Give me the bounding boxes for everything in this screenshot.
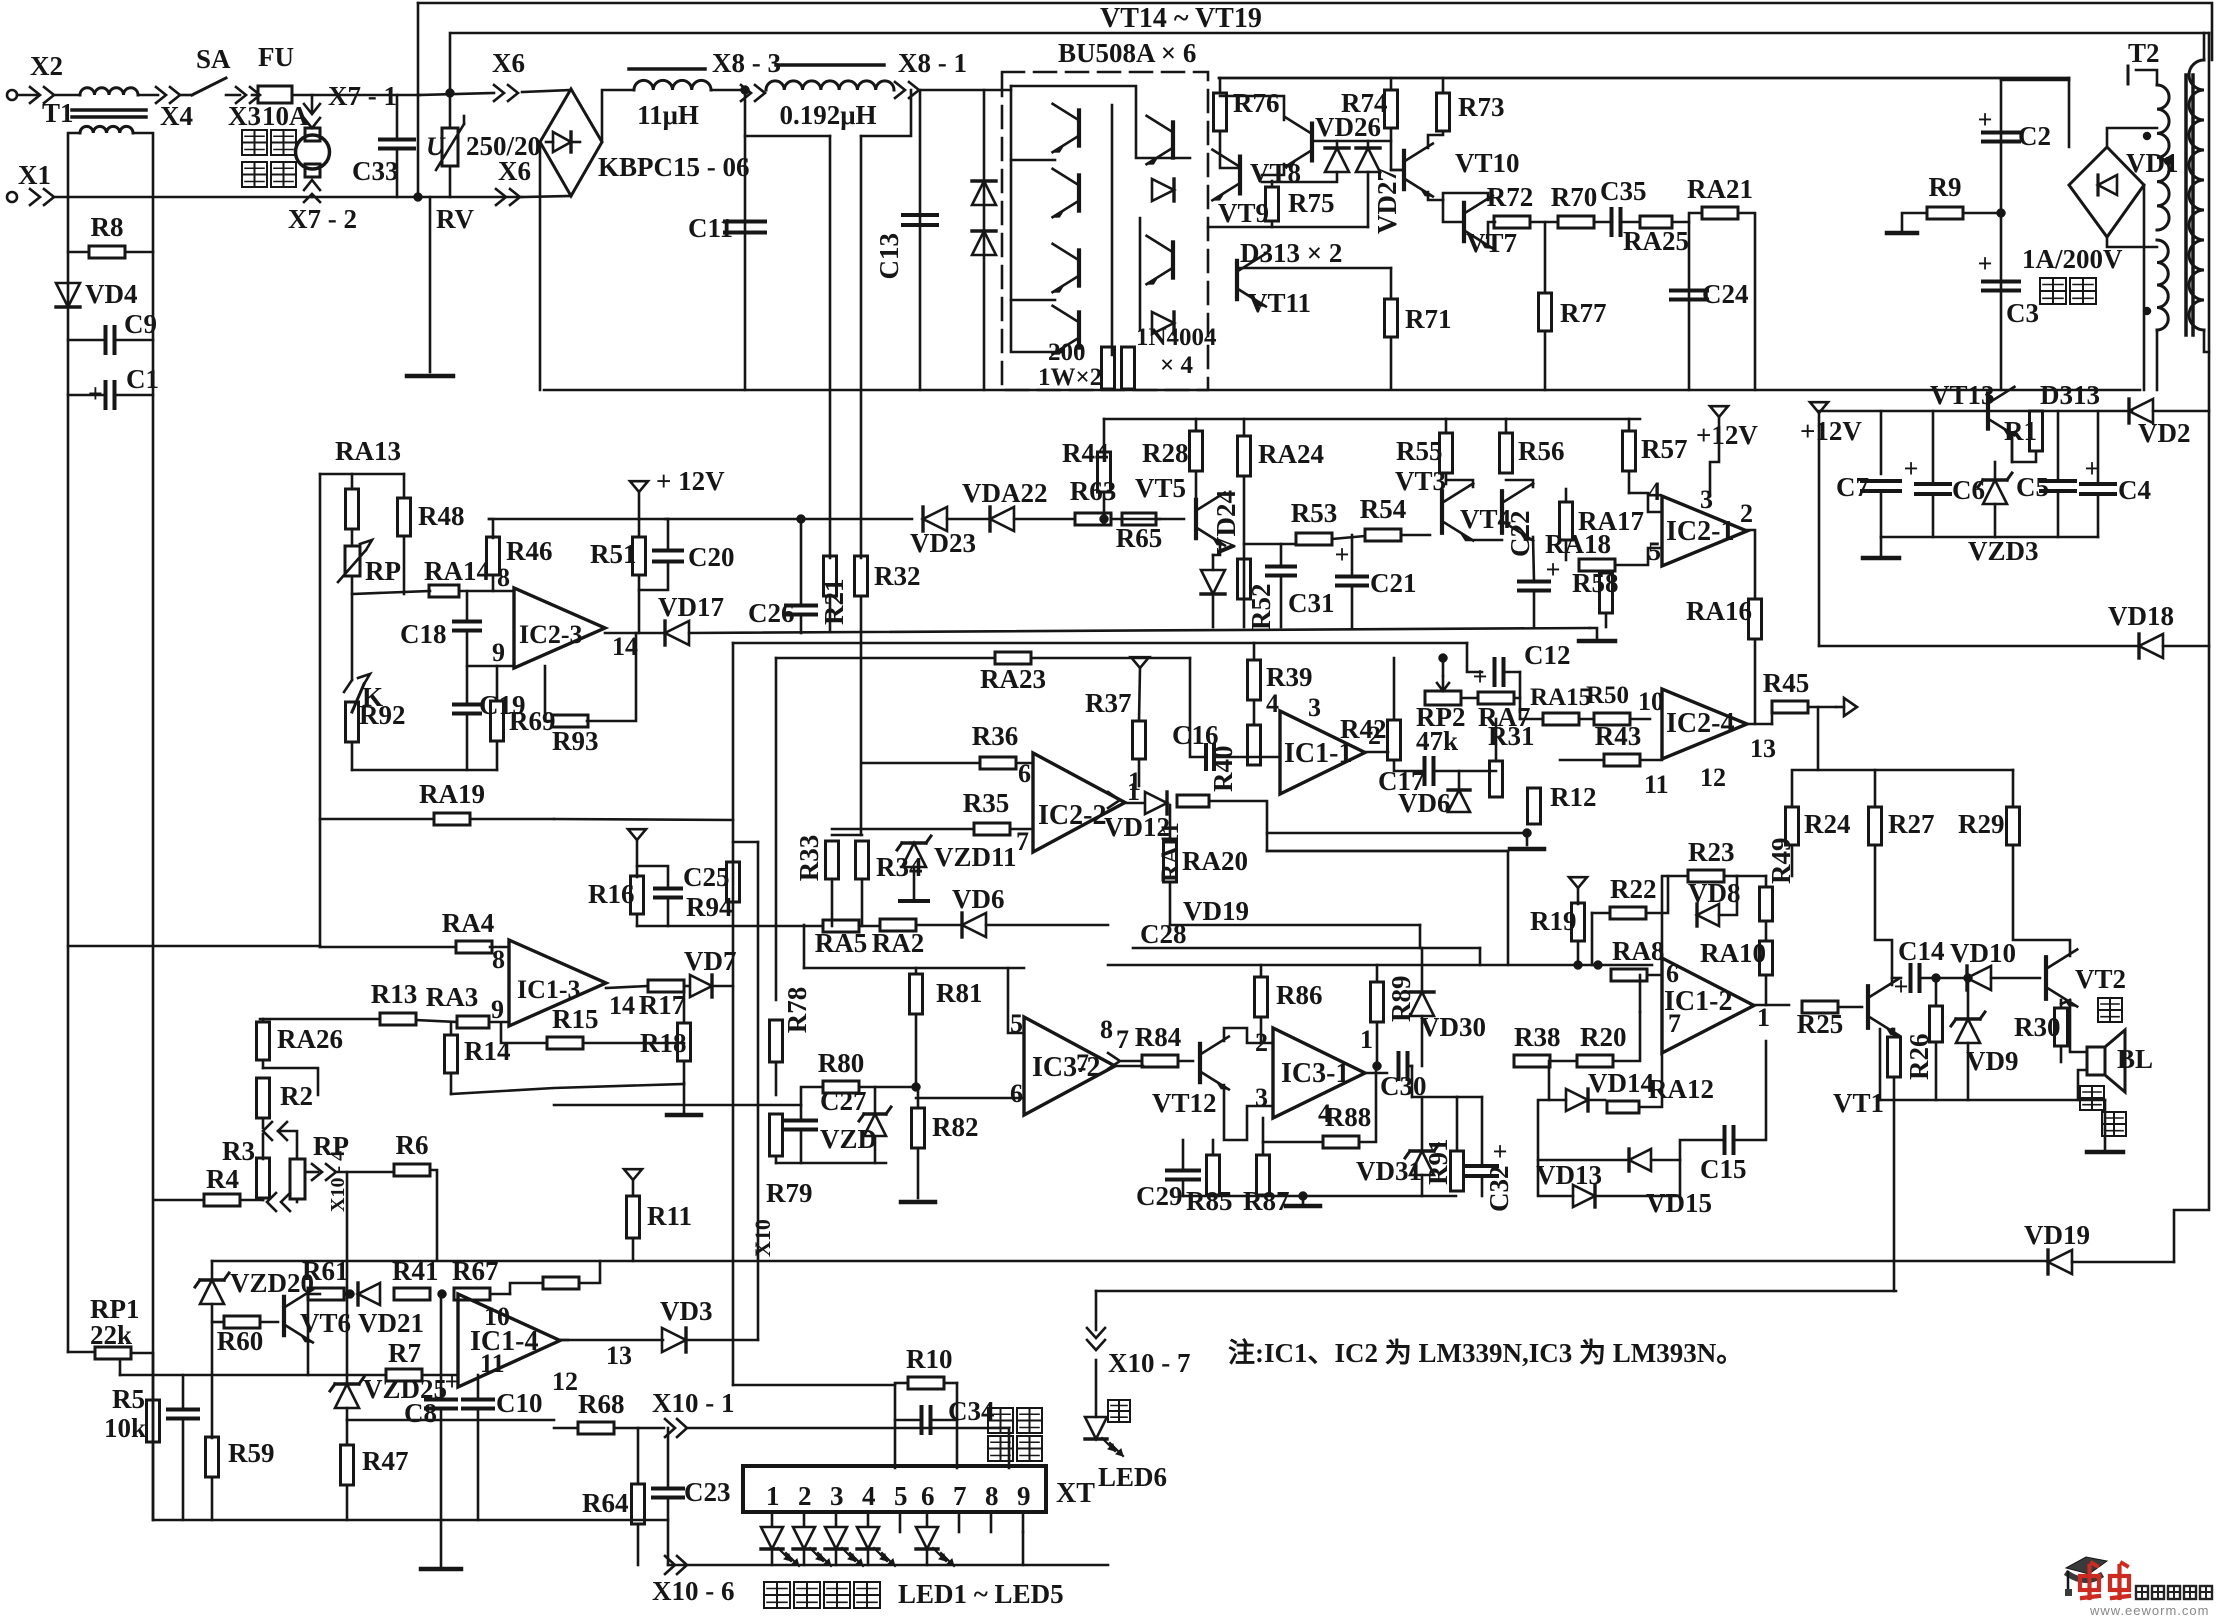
svg-text:R16: R16 [588, 879, 635, 909]
resistor R75 [1266, 187, 1335, 221]
svg-text:+: + [1335, 540, 1350, 569]
wire r44 down [1103, 492, 1106, 519]
svg-text:U: U [426, 132, 446, 161]
svg-text:LED6: LED6 [1098, 1462, 1167, 1492]
wire r54-vt3 [1401, 534, 1430, 537]
wire r81 up [915, 968, 918, 974]
resistor R53 [1291, 498, 1338, 545]
svg-text:R75: R75 [1288, 188, 1335, 218]
resistor R10 [906, 1344, 953, 1389]
capacitor C22 [1519, 555, 1560, 591]
diode VD13 [1536, 1160, 1602, 1207]
resistor R21 [819, 556, 849, 625]
wire vt5 col [1195, 471, 1198, 497]
svg-text:IC3-1: IC3-1 [1281, 1058, 1349, 1089]
wire vt10 base wire [1391, 169, 1404, 172]
resistor R61 [302, 1256, 349, 1300]
wire r26 down [1893, 1077, 1896, 1100]
svg-text:5: 5 [894, 1481, 908, 1511]
power symbol +12V a [630, 466, 725, 496]
svg-text:C9: C9 [124, 309, 157, 339]
wire LED5 bot [926, 1550, 929, 1565]
svg-text:C8: C8 [404, 1398, 437, 1428]
resistor R44 [1062, 438, 1111, 492]
wire ic21 pin5 [1615, 548, 1662, 565]
wire r25 out [1838, 1006, 1862, 1009]
wire reg bottom bus [1881, 536, 2098, 539]
diode VD5a [972, 181, 996, 205]
diode VD17 [658, 592, 724, 645]
capacitor C21 [1335, 540, 1417, 598]
wire r64 down [637, 1524, 640, 1565]
capacitor C31 [1267, 567, 1335, 619]
svg-text:R8: R8 [91, 212, 124, 242]
svg-text:R60: R60 [217, 1326, 264, 1356]
svg-text:BL: BL [2117, 1044, 2153, 1074]
wire c27 down [800, 1130, 803, 1163]
svg-text:R47: R47 [362, 1446, 409, 1476]
svg-text:R94: R94 [686, 892, 733, 922]
wire vert x776 [775, 658, 778, 1000]
svg-text:+: + [1904, 454, 1919, 483]
wire C33 bottom [396, 149, 399, 197]
wire r16 drop [636, 840, 639, 877]
wire r10 stub l [894, 1385, 897, 1468]
wire vd14 right [1589, 1099, 1605, 1102]
svg-text:C2: C2 [2018, 121, 2051, 151]
capacitor C34 [922, 1396, 995, 1433]
wire r10 r [944, 1382, 957, 1385]
wire r27 col [1875, 845, 1892, 978]
capacitor cap R5 side [168, 1410, 198, 1419]
svg-text:RA18: RA18 [1545, 529, 1611, 559]
wire y926 rail [637, 925, 823, 928]
resistor RA13 res [346, 489, 359, 529]
svg-text:IC2-1: IC2-1 [1666, 516, 1734, 547]
wire node down [1519, 698, 1522, 719]
speaker BL [2087, 1030, 2125, 1092]
resistor RA8 [1611, 936, 1665, 981]
svg-text:R30: R30 [2014, 1012, 2061, 1042]
wire driver box left [1219, 78, 1222, 93]
svg-text:VZD: VZD [820, 1124, 877, 1154]
wire 12v drop [638, 492, 641, 519]
svg-text:R15: R15 [552, 1004, 599, 1034]
junction gnd ic31 [1299, 1192, 1308, 1201]
wire ra21 out [1738, 213, 1755, 390]
transistor VT9 [1212, 150, 1269, 228]
wire vd15 wire [1652, 1159, 1680, 1162]
power symbol out [1836, 698, 1857, 716]
svg-text:+: + [445, 1367, 460, 1396]
resistor R25 [1797, 1001, 1844, 1039]
wire rp1 in [68, 1351, 95, 1354]
wire c1 right [115, 394, 153, 397]
potentiometer RP1top [338, 540, 372, 582]
resistor R47 [341, 1445, 409, 1485]
wire r24 down [1791, 845, 1794, 876]
resistor R41 [392, 1256, 439, 1300]
svg-text:R58: R58 [1572, 568, 1619, 598]
svg-text:X10 - 1: X10 - 1 [652, 1388, 735, 1418]
svg-text:VD10: VD10 [1950, 938, 2016, 968]
wire rp down [351, 576, 354, 680]
wire c31 down [1280, 576, 1283, 627]
resistor RA25 [1623, 216, 1689, 256]
svg-text:RA23: RA23 [980, 664, 1046, 694]
wire node-ra15 [1520, 718, 1543, 721]
resistor R51 [590, 537, 646, 575]
resistor RA7 [1478, 692, 1531, 732]
resistor R13 [371, 979, 418, 1025]
transistor VT16 [1053, 244, 1079, 292]
wire bridge bot in [522, 196, 571, 197]
svg-text:C25: C25 [683, 862, 730, 892]
svg-text:13: 13 [606, 1341, 632, 1370]
svg-text:R20: R20 [1580, 1022, 1627, 1052]
svg-text:T2: T2 [2128, 38, 2160, 68]
resistor R8 [89, 212, 125, 258]
wire ic32 in5 [1008, 968, 1024, 1033]
svg-text:R59: R59 [228, 1438, 275, 1468]
wire y968 rail [804, 967, 1024, 970]
wire jog y136 [745, 135, 830, 138]
wire r36 in [862, 762, 980, 765]
wire ic22 out [1125, 802, 1144, 805]
resistor R17 [639, 980, 686, 1020]
svg-text:4: 4 [1648, 477, 1661, 506]
diode VD2 [2129, 399, 2191, 448]
inductor L1 11uH [634, 80, 711, 130]
capacitor C17 [1378, 758, 1434, 796]
wire vt2 em [2061, 1000, 2070, 1004]
wire r49 chain [1765, 876, 1768, 887]
wire r8 right [125, 251, 153, 254]
wire ra3 out [489, 1021, 509, 1024]
connector arrows X10-1 [665, 1419, 687, 1437]
wire ra15-r50 [1579, 718, 1594, 721]
resistor R82 [912, 1108, 979, 1148]
text text 指示 [988, 1436, 1042, 1461]
wire vda22-r63 [1014, 518, 1075, 521]
power symbol pwr R11 [624, 1169, 642, 1180]
wire vd1 left in [2068, 80, 2071, 147]
wire c29 up [1182, 1140, 1185, 1170]
svg-text:VT10: VT10 [1455, 148, 1520, 178]
svg-text:47k: 47k [1416, 726, 1458, 756]
wire LED3 stub [835, 1512, 838, 1526]
resistor R11 [627, 1196, 693, 1238]
wire r43 right [1640, 745, 1662, 760]
wire bus y419 [1104, 418, 1640, 421]
wire r61 vt6 link [307, 1294, 310, 1375]
resistor R65 [1116, 513, 1163, 553]
svg-text:R54: R54 [1360, 494, 1407, 524]
wire r27 up [1874, 770, 1877, 807]
resistor RA17 [1560, 502, 1645, 540]
wire c7 v [1880, 411, 1883, 474]
T2 dot a [2143, 132, 2151, 140]
wire r75 down [1271, 221, 1274, 227]
wire c30-y1097 [1411, 1066, 1414, 1097]
wire driver top bus [1219, 77, 2069, 80]
connector arrows r2 [263, 1122, 287, 1140]
wire reg gnd stub [1880, 537, 1883, 555]
svg-text:10k: 10k [104, 1413, 146, 1443]
wire x1894 long [1893, 1100, 1896, 1291]
wire ra11 out [1209, 801, 1267, 851]
wire r10 stub r [956, 1383, 959, 1468]
wire vzd11 down [913, 867, 916, 900]
capacitor C14 [1894, 936, 1945, 1001]
wire LED2 stub [803, 1512, 806, 1526]
resistor R63 [1070, 476, 1117, 525]
wire r91 up [1456, 1097, 1459, 1151]
svg-text:C4: C4 [2118, 475, 2151, 505]
connector arrow X2 [30, 87, 54, 103]
power symbol pwr R16 [628, 829, 646, 840]
resistor R39 [1248, 660, 1313, 700]
svg-text:R82: R82 [932, 1112, 979, 1142]
wire c5 d [2057, 491, 2060, 537]
capacitor C33 [352, 140, 414, 187]
wire XT stub 959 [958, 1512, 961, 1532]
wire r65 vt5 [1156, 518, 1184, 521]
svg-text:4: 4 [1266, 689, 1279, 718]
svg-text:R72: R72 [1487, 182, 1534, 212]
svg-text:T1: T1 [42, 98, 74, 128]
capacitor C15 [1700, 1127, 1747, 1184]
resistor R37 [1085, 688, 1146, 759]
diode LED3 [825, 1527, 847, 1549]
svg-text:R4: R4 [206, 1164, 239, 1194]
wire r42 up [1393, 658, 1396, 720]
wire rp bot wire [296, 1199, 299, 1202]
wire rp1 out [131, 1352, 153, 1355]
resistor R40 [1208, 725, 1261, 792]
svg-text:R1: R1 [2004, 416, 2037, 446]
wire RA13 loop [320, 473, 404, 476]
svg-text:C10: C10 [496, 1388, 543, 1418]
capacitor C11 [688, 213, 765, 243]
diode VD9 [1951, 1012, 2019, 1076]
wire ra20 up [1169, 805, 1172, 842]
resistor R9 [1927, 172, 1963, 219]
resistor R15 [547, 1004, 599, 1049]
svg-text:VD14: VD14 [1588, 1068, 1654, 1098]
wire rp wiper wire [352, 591, 430, 594]
resistor R35 [963, 788, 1010, 835]
wire x101 out [688, 1427, 1009, 1430]
diode VD inner1 [1152, 179, 1174, 201]
capacitor C13 [874, 215, 937, 280]
wire xt right down [1022, 1532, 1025, 1565]
svg-text:C11: C11 [688, 213, 733, 243]
wire vzd3 line [1994, 462, 1997, 480]
svg-text:X8 - 1: X8 - 1 [898, 48, 967, 78]
svg-text:9: 9 [1017, 1481, 1031, 1511]
svg-text:C33: C33 [352, 156, 399, 186]
LED6 arrows [1102, 1438, 1123, 1456]
op-amp IC2-1 [1662, 496, 1747, 566]
svg-text:KBPC15 - 06: KBPC15 - 06 [598, 152, 750, 182]
wire r80 right [859, 1086, 916, 1089]
wire C2C3 vertical [2000, 80, 2003, 390]
svg-text:1: 1 [1757, 1003, 1770, 1032]
text fan motor chinese 风扇 [242, 130, 296, 155]
transistor VT5 [1135, 473, 1225, 545]
wire vt13 em [2011, 433, 2014, 462]
wire t2 sec top [2203, 33, 2206, 60]
resistor RA15 [1530, 684, 1591, 725]
wire bl gnd [2104, 1130, 2107, 1152]
junction c14 node [1932, 974, 1941, 983]
wire to vd23 [801, 518, 912, 521]
wire ic24 out [1747, 723, 1772, 726]
svg-text:R37: R37 [1085, 688, 1132, 718]
svg-text:R70: R70 [1551, 182, 1598, 212]
connector arrows X8-1 [895, 82, 919, 98]
resistor R64 [582, 1484, 645, 1524]
wire r86 up [1260, 965, 1263, 977]
svg-text:VT5: VT5 [1135, 473, 1186, 503]
svg-text:RA14: RA14 [424, 556, 490, 586]
svg-text:LED1 ~ LED5: LED1 ~ LED5 [898, 1579, 1064, 1609]
wire ra8 out [1647, 974, 1662, 977]
wire vd31 down [1421, 1175, 1424, 1196]
resistor R70 [1551, 182, 1598, 228]
wire bottom rail x10-6 [668, 1564, 1108, 1567]
svg-text:7: 7 [953, 1481, 967, 1511]
wire bottom jog [776, 1162, 886, 1165]
inductor bar X8-3 a [629, 67, 705, 71]
wire vd30 up [1421, 948, 1424, 992]
wire r20 out [1613, 1012, 1640, 1061]
LED arrows 3 [842, 1548, 863, 1566]
svg-text:14: 14 [612, 632, 638, 661]
svg-text:10A: 10A [262, 101, 309, 131]
wire r32 lower [860, 596, 863, 835]
wire r70-c35 [1594, 221, 1611, 224]
wire drop x920 C13 [919, 90, 922, 390]
svg-text:C35: C35 [1600, 176, 1647, 206]
power symbol +12V c [1696, 406, 1758, 450]
wire r1 top [2035, 410, 2038, 413]
wire y833 rail [1267, 832, 1527, 835]
connector arrows X7-2 up [304, 180, 320, 202]
wire r17-vd7 [684, 985, 689, 988]
resistor RA3 [426, 982, 489, 1028]
wire vd19 corner [1419, 925, 1422, 948]
wire rmid up [1935, 978, 1938, 1006]
wire vd13 chain [1538, 1100, 1549, 1160]
wire ra7 out [1514, 672, 1520, 698]
capacitor C24 [1671, 279, 1749, 309]
wire c2 top [2001, 79, 2069, 82]
op-amp IC2-4 [1662, 689, 1747, 759]
wire vt4 col [1506, 480, 1533, 487]
resistor R43 [1595, 721, 1642, 766]
wire vd9 down [1967, 1043, 1970, 1100]
capacitor C4 [2081, 454, 2151, 505]
wire bridge down [539, 142, 542, 390]
wire ra14 out [459, 590, 514, 593]
wire 12vb down [1818, 413, 1821, 646]
wire vt8 base link [1262, 164, 1284, 175]
svg-text:RA2: RA2 [872, 928, 925, 958]
wire ra21 in [1672, 213, 1702, 222]
connector arrows X6 bot [496, 189, 520, 205]
ground gnd R9 [1887, 231, 1917, 236]
resistor R27 [1869, 807, 1935, 845]
wire r68 rail [554, 1427, 578, 1430]
svg-text:C24: C24 [1702, 279, 1749, 309]
resistor R72 [1487, 182, 1534, 228]
svg-text:C3: C3 [2006, 298, 2039, 328]
svg-text:R24: R24 [1804, 809, 1851, 839]
svg-text:FU: FU [258, 42, 294, 72]
svg-text:X1: X1 [18, 160, 51, 190]
diode VD26 [1325, 148, 1349, 172]
svg-text:R21: R21 [819, 579, 849, 626]
wire vd24 up [1212, 555, 1215, 570]
wire c16 wire [1215, 756, 1280, 759]
wire r31 up [1495, 719, 1498, 761]
svg-text:1A/200V: 1A/200V [2022, 244, 2123, 274]
wire ic32 in6 [916, 1097, 1024, 1100]
wire bot rail ic31 [1183, 1195, 1456, 1198]
resistor R14 [445, 1035, 511, 1073]
text text qiao dui 桥堆 [2040, 278, 2096, 304]
svg-text:X6: X6 [492, 48, 525, 78]
diode LED6 [1085, 1417, 1107, 1439]
wire bottom rail left [153, 1519, 668, 1522]
svg-text:8: 8 [497, 563, 510, 592]
svg-text:RA3: RA3 [426, 982, 479, 1012]
svg-text:R45: R45 [1763, 668, 1810, 698]
wire vd3 out [686, 1339, 758, 1342]
wire c22 down [1533, 591, 1536, 627]
wire r39-r40 [1253, 700, 1256, 725]
wire ra10 down [1765, 975, 1768, 1005]
wire r38 right [1550, 1060, 1577, 1063]
wire vd8 wire [1719, 876, 1737, 915]
inductor winding T2 primary lower [2157, 240, 2168, 330]
LED arrows 2 [810, 1548, 831, 1566]
svg-text:+: + [88, 379, 103, 408]
wire r85 down [1212, 1195, 1215, 1196]
watermark site name glyphs [2136, 1586, 2212, 1599]
wire r45 drop [1817, 707, 1820, 770]
wire x101 up [1008, 1428, 1011, 1468]
capacitor C5 [2016, 472, 2075, 502]
svg-text:R27: R27 [1888, 809, 1935, 839]
svg-text:C29: C29 [1136, 1181, 1183, 1211]
capacitor C10 [463, 1388, 543, 1418]
wire r51 up [638, 519, 641, 537]
ground earth input [407, 374, 453, 379]
wire r14 up [450, 1022, 453, 1035]
capacitor C3 [1978, 249, 2039, 328]
resistor RA24 [1238, 436, 1325, 476]
svg-text:VD27: VD27 [1372, 168, 1402, 234]
wire vd14 left [1549, 1061, 1566, 1100]
wire ra26 down [262, 1060, 265, 1068]
wire inner stub2 [1011, 299, 1055, 302]
svg-text:4: 4 [862, 1481, 876, 1511]
wire c8 down [440, 1409, 443, 1520]
wire y833 gnd [1526, 833, 1529, 845]
